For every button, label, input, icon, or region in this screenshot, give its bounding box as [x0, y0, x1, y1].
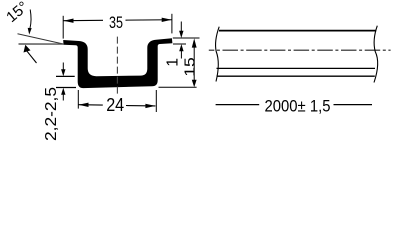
svg-text:2000± 1,5: 2000± 1,5: [265, 97, 331, 116]
svg-text:15: 15: [183, 57, 199, 77]
svg-text:1: 1: [165, 58, 182, 67]
svg-text:35: 35: [109, 13, 123, 32]
svg-text:2,2-2,5: 2,2-2,5: [43, 87, 60, 141]
svg-text:24: 24: [106, 95, 124, 115]
